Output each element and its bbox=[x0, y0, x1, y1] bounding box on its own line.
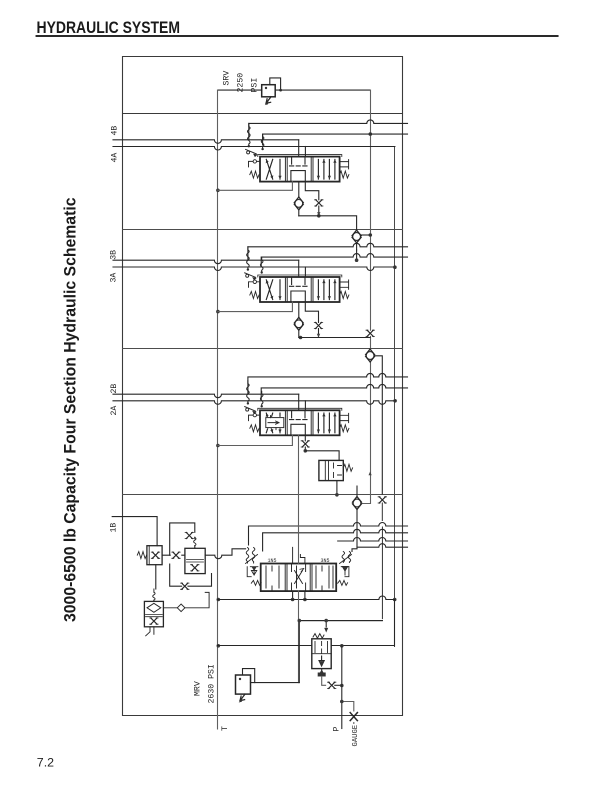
flow arrow on pressure bus bbox=[369, 472, 372, 476]
filter F1 bbox=[144, 589, 163, 636]
check diamond D1 bbox=[163, 592, 209, 607]
wire riser to lowering valve bbox=[299, 621, 382, 683]
relief cluster section 3 bbox=[245, 247, 263, 281]
relief arrows left of U1 bbox=[246, 548, 262, 586]
bypass valve U7 bbox=[137, 546, 162, 565]
wire tank drain section 3 bbox=[218, 302, 293, 312]
wire sense stub lower s2 bbox=[261, 384, 407, 399]
svg-text:2A: 2A bbox=[110, 406, 119, 416]
svg-text:MRV: MRV bbox=[194, 681, 203, 696]
regen symbol in U2 left envelope bbox=[266, 416, 284, 430]
svg-text:1N5: 1N5 bbox=[268, 558, 277, 564]
svg-text:2B: 2B bbox=[110, 384, 119, 394]
wire port 2B bbox=[113, 394, 299, 398]
SRV label bbox=[223, 71, 260, 93]
wire 2B drop bbox=[298, 394, 300, 410]
check valve C3 between sections bbox=[353, 497, 362, 510]
svg-text:4A: 4A bbox=[110, 153, 119, 163]
SRV relief valve U5 bbox=[262, 78, 282, 105]
node J10 (feed to U9) bbox=[324, 619, 328, 623]
svg-text:GAUGE: GAUGE bbox=[352, 725, 360, 747]
wire MRV output bbox=[251, 682, 300, 684]
wire tank drain section 2 bbox=[218, 435, 293, 445]
svg-text:P: P bbox=[333, 727, 342, 732]
node T junctions bbox=[216, 189, 220, 193]
HP carryover riser bbox=[298, 435, 300, 682]
wire 4A drop bbox=[304, 147, 306, 157]
node P1 on pressure bus bbox=[369, 132, 373, 136]
relief arrows right of U1 bbox=[338, 552, 352, 586]
node J4 (restrictor to collector) bbox=[317, 212, 320, 216]
wire port 4A bbox=[113, 147, 395, 151]
wire SRV output to T bus bbox=[218, 89, 262, 91]
wire lowering valve to A-bus corner bbox=[331, 600, 394, 647]
check valve section 4 outlet bbox=[294, 197, 303, 210]
node J6 (section 2 outlet) bbox=[304, 449, 308, 453]
node J11 (to P bus) bbox=[340, 684, 344, 688]
svg-text:T: T bbox=[221, 726, 230, 731]
wire port 2A bbox=[113, 401, 395, 405]
wire sense stub lower s3 bbox=[261, 254, 407, 266]
svg-text:2250: 2250 bbox=[237, 73, 246, 93]
node J8 (U1 drain right) bbox=[303, 598, 307, 602]
node T3 bbox=[216, 444, 220, 448]
node T2 bbox=[216, 310, 220, 314]
wire tank gallery line bbox=[218, 596, 395, 600]
node J9 (riser to lowering valve) bbox=[298, 619, 302, 623]
wire to tilt lock valve bbox=[305, 451, 339, 461]
wire sense stub lower bbox=[263, 134, 408, 145]
node A2 (2A to A-bus) bbox=[393, 399, 397, 403]
wire inter-section feed bbox=[356, 250, 358, 260]
wire U1 bottom drops bbox=[293, 591, 305, 599]
node A3 (gallery to A-bus) bbox=[393, 598, 397, 602]
node A1 (3A to A-bus) bbox=[393, 265, 397, 269]
node T5 bbox=[217, 644, 221, 648]
valve U4 (4th section spool) bbox=[249, 155, 349, 182]
wire 4B drop bbox=[298, 140, 300, 157]
node T4 bbox=[217, 598, 221, 602]
P bus bbox=[341, 646, 343, 729]
check valve C2 between sections bbox=[366, 349, 375, 362]
relief cluster section 4 bbox=[246, 123, 264, 157]
wire port 3B bbox=[113, 260, 299, 264]
wire collector section 4 bbox=[299, 216, 357, 231]
check valve C1 between sections bbox=[352, 230, 361, 243]
restrictor X on pressure bus bbox=[366, 330, 374, 336]
restrictor X section 2 bbox=[301, 441, 309, 447]
restrictor X section 4 bbox=[315, 200, 323, 206]
wire check C1 branch bbox=[361, 234, 370, 236]
lowering flow control U9 feed arrow bbox=[325, 621, 327, 627]
node P2 on pressure bus bbox=[369, 233, 373, 237]
section boundary 2/1 bbox=[123, 494, 403, 496]
wire inlet to valve 1 bbox=[205, 549, 245, 559]
wire rail s1 c bbox=[338, 538, 408, 541]
valve U2 (tilt section spool) bbox=[249, 408, 349, 435]
svg-text:3000-6500 lb Capacity Four Sec: 3000-6500 lb Capacity Four Section Hydra… bbox=[61, 198, 79, 623]
wire 3B drop bbox=[298, 260, 300, 277]
section boundary 3/2 bbox=[123, 348, 403, 350]
MRV main relief valve bbox=[236, 669, 255, 703]
svg-text:3B: 3B bbox=[110, 250, 119, 260]
restrictor X section 3 bbox=[314, 322, 322, 328]
valve U1 (lift section spool) bbox=[261, 558, 337, 591]
node J12 (P branch) bbox=[340, 644, 344, 648]
tilt lock check valve U6 bbox=[319, 460, 353, 496]
wire rail s1 b bbox=[263, 529, 408, 551]
valve U3 (3rd section spool) bbox=[249, 275, 349, 302]
node J3 (check C1 to 3B) bbox=[355, 258, 359, 262]
wire rail s1 a bbox=[249, 523, 408, 546]
svg-text:4B: 4B bbox=[110, 126, 119, 136]
flow arrow section 3 restrictor bbox=[317, 334, 320, 338]
pressure bus vertical (SRV feed) bbox=[362, 90, 371, 503]
svg-text:7.2: 7.2 bbox=[37, 755, 54, 769]
restrictor X inline bbox=[172, 552, 180, 558]
wire collector section 3 bbox=[299, 337, 370, 339]
wire sense stub upper s3 bbox=[248, 243, 408, 260]
svg-text:2630 PSI: 2630 PSI bbox=[208, 664, 217, 703]
wire U1 feed drops bbox=[293, 547, 305, 563]
svg-text:HYDRAULIC SYSTEM: HYDRAULIC SYSTEM bbox=[37, 19, 181, 37]
wire tank drain section 4 bbox=[218, 182, 293, 191]
wire T to lowering valve bbox=[218, 645, 312, 647]
header rule bbox=[37, 35, 558, 37]
restrictor X to P bbox=[328, 682, 336, 688]
wire port 1B bbox=[112, 517, 157, 546]
wire gauge branch bbox=[342, 702, 354, 724]
frame outline bbox=[123, 57, 403, 716]
svg-text:1B: 1B bbox=[109, 523, 118, 533]
svg-text:SRV: SRV bbox=[223, 71, 232, 86]
wire 3A drop bbox=[304, 267, 306, 277]
wire SRV output right bbox=[275, 89, 370, 91]
lowering flow control valve U9 bbox=[312, 634, 331, 669]
node J13 (gauge tee) bbox=[340, 700, 344, 704]
wire U7 to U8 bbox=[162, 554, 185, 556]
restrictor X on branch bus bbox=[378, 497, 386, 503]
wire sense stub upper bbox=[249, 120, 408, 140]
node J5 (check to collector 3) bbox=[299, 336, 303, 340]
wire 2A drop bbox=[304, 401, 306, 411]
gauge connector X bbox=[350, 713, 357, 721]
header title bbox=[37, 19, 181, 37]
section boundary 4/3 bbox=[123, 229, 403, 231]
svg-text:3A: 3A bbox=[110, 273, 119, 283]
wire port 4B bbox=[113, 140, 299, 144]
frame inner top line bbox=[123, 113, 403, 115]
T bus (tank return) bbox=[217, 90, 219, 729]
node J7 (U1 drain left) bbox=[291, 598, 295, 602]
A-port bus vertical bbox=[394, 147, 396, 647]
wire rail s1 d bbox=[352, 544, 408, 552]
wire check C2 branch bbox=[375, 356, 383, 494]
wire sense stub upper s2 bbox=[248, 373, 408, 393]
svg-text:3N5: 3N5 bbox=[321, 558, 330, 564]
solid check below U9 bbox=[318, 669, 326, 686]
relief cluster section 2 bbox=[245, 381, 263, 415]
MRV label bbox=[194, 664, 217, 703]
wire port 3A bbox=[113, 267, 395, 271]
sequence valve U8 bbox=[170, 523, 212, 589]
check valve section 3 outlet bbox=[294, 317, 303, 330]
wire U7 to filter bbox=[155, 565, 157, 589]
